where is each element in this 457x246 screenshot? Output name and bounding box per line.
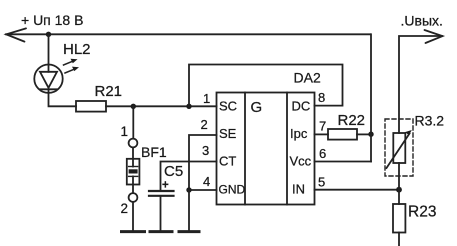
svg-text:DA2: DA2 [294,70,321,86]
svg-text:Vсс: Vсс [290,154,312,169]
svg-text:R22: R22 [338,112,366,129]
node supply junction [46,32,51,37]
wire supply drop [370,34,372,161]
capacitor C5 [149,191,174,196]
svg-text:4: 4 [203,174,210,189]
svg-text:3: 3 [202,143,209,158]
wire C5 to ground [160,197,162,231]
wire Vcc pin 6 [315,161,372,163]
svg-text:.Uвых.: .Uвых. [401,13,443,29]
terminal 1 of BF1 [129,139,138,148]
svg-text:BF1: BF1 [141,144,167,160]
node BF1 junction [131,104,136,109]
svg-text:R21: R21 [95,83,123,100]
resistor R3.2 variable [393,133,405,163]
svg-text:CT: CT [219,154,236,169]
op-amp U1 DA2 box [217,93,315,205]
resistor R23 [393,204,405,233]
ground under C5 [150,230,172,233]
svg-text:+ Uп 18 В: + Uп 18 В [21,12,83,28]
wire pin 3 CT to C5 [161,162,217,190]
wire LED to R21 [49,93,77,107]
wire BF1 body to terminal 2 [132,176,134,193]
node divider junction [396,187,402,193]
wire pin 5 IN to output divider [315,189,400,191]
wire +Un top rail [6,33,370,35]
svg-text:1: 1 [203,91,210,106]
svg-text:SC: SC [219,99,237,114]
LED HL2 [34,65,62,93]
wire pin 2 SE down [189,135,217,190]
svg-text:GND: GND [219,183,246,197]
wire BF1 to ground [132,202,134,231]
svg-text:6: 6 [319,146,326,161]
wire R21 to pin 1 [106,105,217,107]
ground under BF1 [122,230,145,233]
wire output branch [399,36,442,133]
svg-text:2: 2 [201,117,208,132]
wire DC feedback loop [189,65,343,107]
wire R3.2 to junction [398,163,400,204]
piezo filter BF1 [127,159,140,185]
arrow of variable resistor R3.2 [387,134,410,169]
svg-text:SE: SE [219,126,237,141]
dashed enclosure of R3.2 [385,119,413,176]
node GND junction [186,187,191,192]
node R22 supply junction [368,132,373,137]
wire R23 down [398,233,400,246]
svg-text:1: 1 [121,124,129,139]
svg-text:IN: IN [292,182,305,197]
wire from rail to LED [48,34,50,64]
arrow left input [6,28,26,41]
svg-text:HL2: HL2 [63,41,91,58]
resistor R21 [76,101,106,112]
wire BF1 branch [132,106,134,138]
wire pin 4 GND [189,189,217,191]
svg-text:DC: DC [292,99,311,114]
svg-text:+: + [162,180,169,192]
LED light emission arrows [64,59,80,73]
ground under GND pin [179,230,199,233]
svg-text:R3.2: R3.2 [415,113,445,129]
svg-text:5: 5 [318,175,325,190]
svg-text:C5: C5 [164,163,183,180]
wire terminal to BF1 body [132,147,134,166]
svg-text:Iрс: Iрс [290,126,308,141]
svg-text:2: 2 [121,201,129,216]
resistor R22 [328,129,357,140]
svg-text:R23: R23 [408,204,436,221]
wire pin 7 to R22 [315,133,329,135]
arrow output [425,30,443,43]
svg-text:7: 7 [319,119,326,134]
svg-text:8: 8 [318,90,325,105]
svg-text:G: G [251,99,263,116]
wire R22 to supply [357,133,371,135]
node SC feedback junction [186,104,191,109]
terminal 2 of BF1 [129,193,138,202]
wire GND junction to ground [188,190,190,231]
